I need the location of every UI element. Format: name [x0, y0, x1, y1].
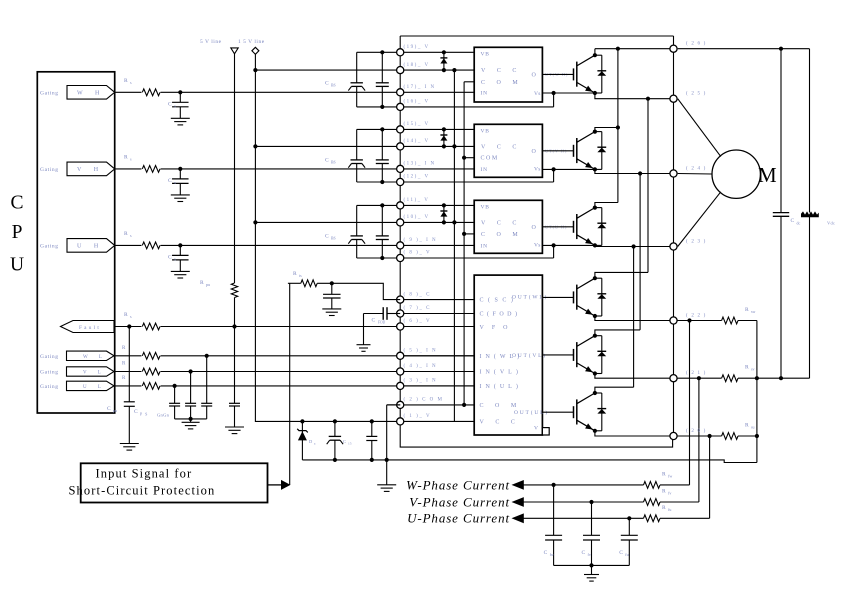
svg-text:IN: IN	[481, 167, 488, 173]
svg-text:C: C	[791, 218, 795, 224]
svg-text:O: O	[532, 149, 537, 155]
svg-text:(15)_ V: (15)_ V	[404, 122, 430, 127]
top bus wire	[400, 35, 673, 37]
IGBT gate/body bars	[573, 68, 575, 80]
svg-text:R: R	[124, 154, 128, 160]
pin (18)	[397, 67, 404, 74]
negative bus	[757, 377, 810, 379]
capacitor 5V bypass to ground	[229, 402, 240, 404]
svg-text:R: R	[662, 505, 666, 511]
wire collector bend	[595, 387, 634, 393]
wire VCC row	[255, 145, 474, 147]
wire emitter to phase row	[595, 245, 674, 246]
svg-text:(12)_ V: (12)_ V	[404, 175, 430, 180]
wire gating L row	[115, 371, 475, 373]
svg-text:15: 15	[348, 442, 352, 446]
svg-text:C: C	[544, 550, 548, 556]
svg-text:V H: V H	[77, 167, 104, 173]
CPU input tag Fault	[61, 321, 115, 333]
pin (24)	[670, 170, 677, 177]
svg-text:O: O	[532, 72, 537, 78]
wire Vs pin to emitter	[542, 168, 595, 170]
phase sense vertical	[646, 97, 650, 101]
IGBT emitter slant with arrow	[577, 159, 595, 170]
IPM left pin rail	[400, 36, 672, 447]
svg-text:( 8 )_ C: ( 8 )_ C	[404, 292, 431, 297]
wire phase W to motor	[678, 99, 721, 157]
svg-text:IN(VL): IN(VL)	[480, 369, 522, 376]
IGBT gate/body bars	[573, 291, 575, 303]
wire VS row under block	[357, 181, 554, 183]
pin (20)	[670, 432, 677, 439]
svg-text:fv: fv	[668, 491, 671, 496]
capacitor on gating L line	[189, 369, 193, 373]
capacitor Cx to ground	[178, 167, 182, 171]
svg-text:Gating: Gating	[40, 167, 59, 173]
resistor Rs fault	[142, 322, 161, 331]
pin (9)	[397, 242, 404, 249]
svg-text:R: R	[745, 307, 749, 313]
pin (15)	[397, 126, 404, 133]
capacitor Cfv	[589, 500, 593, 504]
U-phase current output wire	[524, 517, 644, 519]
resistor Rfu	[644, 515, 661, 522]
svg-text:VFO: VFO	[480, 325, 516, 331]
svg-text:C: C	[582, 550, 586, 556]
CPU output tag Gating W L	[67, 351, 115, 360]
wire gate lead	[542, 296, 573, 298]
pin (5)	[397, 352, 404, 359]
freewheel diode	[595, 277, 602, 279]
svg-text:R: R	[662, 471, 666, 477]
pin (14)	[397, 143, 404, 150]
SC input vertical wire	[289, 283, 291, 485]
svg-text:Vs: Vs	[534, 91, 541, 97]
5V wire continues	[234, 298, 236, 404]
svg-text:O: O	[532, 225, 537, 231]
svg-text:C: C	[168, 178, 172, 184]
svg-text:U-Phase Current: U-Phase Current	[407, 511, 510, 526]
svg-text:BS: BS	[331, 83, 336, 87]
wire block pin stub	[400, 371, 474, 373]
pin (12)	[397, 178, 404, 185]
svg-text:(14)_ V: (14)_ V	[404, 139, 430, 144]
motor M	[712, 150, 760, 198]
5V vertical wire	[234, 54, 236, 283]
svg-text:C: C	[134, 409, 138, 415]
svg-text:VCC: VCC	[481, 68, 528, 74]
svg-text:x: x	[174, 256, 176, 261]
wire gating H row	[115, 244, 475, 246]
svg-text:Short-Circuit Protection: Short-Circuit Protection	[69, 484, 216, 498]
svg-text:FOD: FOD	[378, 321, 386, 325]
wire block pin stub	[400, 326, 474, 328]
svg-text:R: R	[293, 271, 297, 277]
svg-text:pu: pu	[206, 282, 210, 287]
wire emitter to shunt row	[595, 431, 722, 436]
wire emitter to shunt row	[595, 316, 722, 321]
wire VS to emitter node	[553, 169, 555, 182]
freewheel diode	[595, 131, 602, 133]
wire VCC row	[255, 221, 474, 223]
COM chain vertical	[463, 82, 465, 405]
svg-text:C: C	[10, 193, 23, 214]
IGBT emitter slant with arrow	[577, 235, 595, 246]
capacitor on fault line to ground	[127, 324, 131, 328]
sense vertical U	[708, 434, 712, 438]
wire collector up	[594, 49, 596, 56]
15V vertical wire down to VCC(1) row	[255, 54, 400, 421]
svg-text:W H: W H	[77, 91, 105, 97]
bootstrap electrolytic cap	[356, 52, 358, 83]
resistor Rs	[142, 241, 161, 250]
svg-text:1 5 V line: 1 5 V line	[238, 39, 265, 45]
IGBT gate/body bars	[573, 349, 575, 361]
pin (19)	[397, 49, 404, 56]
svg-text:P: P	[12, 222, 23, 243]
resistor Rs low	[142, 351, 161, 360]
svg-text:ts: ts	[299, 273, 302, 278]
pin (3)	[397, 382, 404, 389]
wire Rts to pin 8	[317, 283, 400, 299]
svg-text:VCC: VCC	[481, 144, 528, 150]
svg-text:V-Phase Current: V-Phase Current	[409, 494, 510, 509]
wire block pin stub	[400, 299, 474, 301]
svg-text:Gating: Gating	[40, 354, 59, 360]
bottom return rail	[302, 460, 757, 463]
svg-text:(10)_ V: (10)_ V	[404, 215, 430, 220]
wire collector bend	[595, 272, 648, 278]
resistor Rpu (pull-up) vertical	[231, 283, 237, 297]
IGBT collector slant	[577, 55, 595, 66]
svg-text:R: R	[124, 231, 128, 237]
electrolytic cap C15	[333, 419, 337, 423]
svg-text:OUT(VL): OUT(VL)	[512, 352, 547, 359]
svg-text:( 8 )_ V: ( 8 )_ V	[404, 251, 432, 256]
svg-text:( 3 )_ I N: ( 3 )_ I N	[404, 379, 438, 384]
wire VB row	[357, 128, 475, 130]
resistor Rs low	[142, 367, 161, 376]
svg-text:COM: COM	[481, 156, 499, 162]
wire collector up	[595, 128, 618, 132]
low-side driver IC U4	[474, 275, 542, 435]
svg-text:( 2 4 ): ( 2 4 )	[686, 167, 706, 172]
wire block pin stub	[400, 420, 474, 422]
svg-text:VB: VB	[481, 204, 490, 210]
svg-text:(16)_ V: (16)_ V	[404, 100, 430, 105]
capacitor Csc to ground	[331, 283, 333, 294]
svg-text:M: M	[758, 163, 777, 187]
bootstrap diode Dbs	[442, 127, 446, 131]
wire Vs pin to emitter	[542, 244, 595, 246]
bootstrap electrolytic cap	[356, 129, 358, 160]
capacitor Cx to ground	[178, 243, 182, 247]
wire Fault row (VFO)	[115, 326, 401, 328]
svg-text:fu: fu	[668, 507, 671, 512]
pin (13)	[397, 165, 404, 172]
wire emitter to phase row	[595, 93, 674, 99]
shunt common vertical	[756, 321, 758, 463]
shunt resistor Rsu	[722, 433, 738, 440]
COM to ground vertical	[386, 405, 388, 485]
svg-text:x: x	[174, 103, 176, 108]
common rail of gating L caps to ground	[175, 418, 207, 420]
svg-text:BS: BS	[331, 236, 336, 240]
wire VS row under block	[357, 106, 554, 108]
svg-text:(13)_ I N: (13)_ I N	[404, 162, 436, 167]
svg-text:C: C	[325, 80, 329, 86]
svg-text:VB: VB	[481, 51, 490, 57]
pin (7)	[397, 310, 404, 317]
pin (4)	[397, 368, 404, 375]
svg-text:Vdc: Vdc	[827, 221, 835, 226]
junction 15V to VCC row	[253, 68, 257, 72]
wire block pin stub	[400, 385, 474, 387]
pin (10)	[397, 219, 404, 226]
P bus to DC source	[678, 48, 810, 50]
svg-text:U H: U H	[77, 244, 104, 250]
svg-text:fu: fu	[625, 552, 628, 557]
svg-text:R: R	[124, 78, 128, 84]
svg-text:Input Signal for: Input Signal for	[96, 467, 193, 481]
freewheel diode	[595, 207, 602, 209]
svg-text:VB: VB	[481, 128, 490, 134]
svg-text:VCC: VCC	[481, 220, 528, 226]
svg-text:sv: sv	[751, 367, 755, 372]
IGBT gate/body bars	[573, 221, 575, 233]
vertical P feed to lower collectors	[617, 49, 619, 203]
wire collector up	[595, 203, 618, 208]
svg-text:(11)_ V: (11)_ V	[404, 198, 430, 203]
pin (22)	[670, 317, 677, 324]
bootstrap ceramic cap	[380, 203, 384, 207]
svg-text:( 2 3 ): ( 2 3 )	[686, 240, 706, 245]
svg-text:( 2 1 ): ( 2 1 )	[686, 371, 706, 376]
junction 15V to VCC row	[253, 144, 257, 148]
svg-text:sw: sw	[751, 309, 756, 314]
svg-text:Gating: Gating	[40, 243, 59, 249]
svg-text:COM: COM	[480, 403, 528, 409]
svg-text:su: su	[751, 425, 755, 430]
svg-text:( 1 )_ V: ( 1 )_ V	[404, 414, 432, 419]
svg-text:( 2 2 ): ( 2 2 )	[686, 314, 706, 319]
svg-text:( 2 ) C O M: ( 2 ) C O M	[404, 398, 444, 403]
VCC chain vertical	[453, 70, 455, 421]
svg-text:fw: fw	[550, 552, 554, 557]
svg-text:U: U	[10, 254, 24, 275]
svg-text:VCC: VCC	[480, 419, 527, 425]
svg-text:x: x	[174, 180, 176, 185]
pin (23)	[670, 243, 677, 250]
sense vertical W	[687, 318, 691, 322]
resistor Rfw	[644, 482, 661, 489]
svg-text:R: R	[662, 489, 666, 495]
wire phase U to motor	[678, 192, 721, 247]
svg-text:( 2 6 ): ( 2 6 )	[686, 42, 706, 47]
ceramic cap	[370, 419, 374, 423]
phase sense vertical	[632, 244, 636, 248]
gate driver block U1 (WH)	[474, 47, 542, 102]
wire VS to emitter node	[553, 245, 555, 258]
svg-text:5 V line: 5 V line	[200, 39, 222, 45]
CPU output tag Gating W H	[67, 86, 115, 100]
wire VCC row	[255, 69, 474, 71]
CPU output tag Gating V H	[67, 162, 115, 176]
svg-text:R: R	[745, 365, 749, 371]
svg-text:C(FOD): C(FOD)	[480, 311, 521, 318]
svg-text:R: R	[124, 312, 128, 318]
wire gate lead	[542, 73, 573, 75]
svg-text:C: C	[325, 233, 329, 239]
svg-text:V: V	[534, 426, 538, 432]
svg-text:R: R	[200, 280, 204, 286]
bootstrap diode Dbs	[442, 50, 446, 54]
svg-text:IN: IN	[481, 243, 488, 249]
svg-text:(18)_ V: (18)_ V	[404, 63, 430, 68]
svg-text:F a u l t: F a u l t	[79, 325, 99, 331]
pin (21)	[670, 375, 677, 382]
IGBT emitter slant with arrow	[577, 420, 595, 431]
svg-text:C: C	[372, 318, 376, 324]
Input Signal box	[81, 463, 268, 502]
pin (25)	[670, 95, 677, 102]
resistor Rts	[288, 282, 301, 284]
svg-text:(17)_ I N: (17)_ I N	[404, 85, 436, 90]
svg-text:( 2 0 ): ( 2 0 )	[686, 429, 706, 434]
svg-text:( 5 )_ I N: ( 5 )_ I N	[404, 349, 438, 354]
wire gating H row	[115, 168, 475, 170]
freewheel diode	[595, 335, 602, 337]
svg-text:P S: P S	[140, 412, 148, 417]
zener diode Dz	[300, 419, 304, 423]
svg-text:( 4 )_ I N: ( 4 )_ I N	[404, 364, 438, 369]
CPU output tag Gating U L	[67, 381, 115, 390]
CPU output tag Gating U H	[67, 239, 115, 253]
shunt resistor Rsv	[722, 375, 738, 382]
svg-text:pu: pu	[113, 408, 117, 413]
pin (11)	[397, 202, 404, 209]
svg-text:Gating: Gating	[40, 90, 59, 96]
CPU output tag Gating V L	[67, 367, 115, 376]
svg-text:Gating: Gating	[40, 370, 59, 376]
IPM right pin rail	[673, 36, 675, 436]
junction 15V to VCC row	[253, 220, 257, 224]
V-phase current output wire	[524, 501, 644, 503]
wire emitter to phase row	[595, 169, 674, 173]
wire VS row under block	[357, 257, 554, 259]
resistor Rs	[142, 88, 161, 97]
IGBT emitter slant with arrow	[577, 305, 595, 316]
IGBT collector slant	[577, 393, 595, 404]
svg-text:dc: dc	[797, 221, 801, 226]
capacitor Cfw	[552, 483, 556, 487]
svg-text:GnGn: GnGn	[157, 413, 170, 418]
svg-text:U L: U L	[83, 385, 106, 390]
svg-text:W L: W L	[83, 355, 107, 360]
wire Vs pin to emitter	[542, 92, 595, 94]
svg-text:C: C	[325, 157, 329, 163]
svg-text:IN(UL): IN(UL)	[480, 383, 522, 390]
IGBT collector slant	[577, 132, 595, 143]
svg-text:Vs: Vs	[534, 242, 541, 248]
capacitor Cfod	[387, 313, 400, 315]
sense vertical V	[697, 376, 701, 380]
capacitor on gating L line	[205, 354, 209, 358]
capacitor on gating L line	[173, 384, 177, 388]
svg-text:IN: IN	[481, 90, 488, 96]
pin (17)	[397, 89, 404, 96]
bootstrap ceramic cap	[380, 50, 384, 54]
bootstrap diode Dbs	[442, 203, 446, 207]
wire gate lead	[542, 150, 573, 152]
pin (6)	[397, 323, 404, 330]
wire COM stub	[464, 233, 474, 235]
wire gating H row	[115, 91, 475, 93]
wire gating L row	[115, 355, 475, 357]
gate driver block U2 (VH)	[474, 124, 542, 177]
svg-text:C: C	[343, 439, 346, 444]
svg-text:C: C	[107, 406, 111, 412]
wire collector bend	[595, 330, 640, 336]
resistor Rs	[142, 164, 161, 173]
arrow to SC line	[268, 484, 282, 486]
svg-text:Vs: Vs	[534, 166, 541, 172]
IGBT collector slant	[577, 208, 595, 219]
svg-text:BS: BS	[331, 160, 336, 164]
svg-text:fw: fw	[668, 473, 672, 478]
svg-text:COM: COM	[481, 232, 529, 238]
shunt resistor Rsw	[722, 317, 738, 324]
svg-text:( 9 )_ I N: ( 9 )_ I N	[404, 238, 438, 243]
sense caps common rail and ground	[554, 564, 630, 566]
pin (2)	[397, 401, 404, 408]
IGBT collector slant	[577, 336, 595, 347]
wire VS to emitter node	[553, 93, 555, 107]
wire block pin stub	[400, 313, 474, 315]
svg-text:fv: fv	[588, 552, 591, 557]
wire gate lead	[542, 411, 573, 413]
svg-text:Gating: Gating	[40, 384, 59, 390]
wire gating L row	[115, 385, 475, 387]
svg-text:C: C	[619, 550, 623, 556]
IGBT gate/body bars	[573, 406, 575, 418]
capacitor Cdc	[779, 47, 783, 51]
battery Vdc	[809, 49, 811, 213]
wire VB row	[357, 204, 475, 206]
W-phase current output wire	[524, 484, 644, 486]
IGBT collector slant	[577, 278, 595, 289]
wire emitter to shunt row	[595, 374, 722, 379]
svg-text:( 7 )_ C: ( 7 )_ C	[404, 306, 431, 311]
pin (16)	[397, 103, 404, 110]
wire COM stub	[464, 81, 474, 83]
capacitor Cx to ground	[178, 90, 182, 94]
svg-text:V L: V L	[83, 371, 106, 376]
capacitor Cfu	[627, 516, 631, 520]
IGBT emitter slant with arrow	[577, 363, 595, 374]
freewheel diode	[595, 392, 602, 394]
wire gate lead	[542, 226, 573, 228]
phase sense vertical	[638, 171, 642, 175]
wire COM stub	[464, 157, 474, 159]
svg-text:(19)_ V: (19)_ V	[404, 45, 430, 50]
resistor Rfv	[644, 499, 661, 506]
bootstrap ceramic cap	[380, 127, 384, 131]
wire VB row	[357, 51, 475, 53]
CPU block	[37, 72, 114, 413]
svg-text:W-Phase Current: W-Phase Current	[406, 477, 510, 492]
IGBT gate/body bars	[573, 145, 575, 157]
